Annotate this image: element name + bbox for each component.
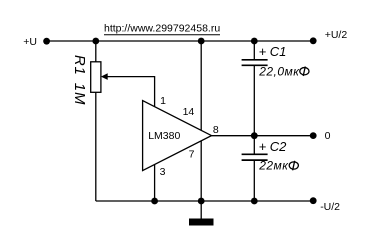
svg-text:LM380: LM380 — [148, 130, 180, 142]
value C2 Ф glyph — [289, 161, 298, 171]
svg-text:0: 0 — [325, 130, 331, 142]
capacitor C2 plates — [242, 154, 268, 160]
wire top rail — [47, 40, 314, 42]
wire C1 bottom lead — [253, 66, 255, 136]
svg-text:8: 8 — [213, 124, 219, 136]
resistor R1 body — [91, 62, 101, 93]
svg-text:14: 14 — [183, 106, 195, 118]
terminal +U/2 — [310, 37, 317, 44]
svg-text:+U: +U — [23, 36, 37, 48]
node junction top R1 — [92, 38, 99, 45]
wire C2 top lead — [253, 136, 255, 154]
label url underline — [104, 34, 220, 36]
resistor R1 wiper arrow — [101, 73, 108, 80]
wire R1 bottom lead — [95, 92, 97, 201]
wire pin 3 to bottom rail — [154, 164, 156, 201]
terminal 0 — [310, 132, 317, 139]
svg-text:+ C2: + C2 — [259, 139, 288, 154]
value C1 Ф glyph — [300, 67, 309, 77]
svg-text:1: 1 — [160, 95, 166, 107]
terminal +U — [43, 38, 50, 45]
node junction top pin14 — [198, 38, 205, 45]
wire wiper to pin 1 — [106, 77, 155, 107]
node junction bottom ground — [198, 198, 205, 205]
svg-text:+ C1: + C1 — [259, 44, 287, 59]
terminal -U/2 — [310, 197, 317, 204]
op-amp U1 LM380 triangle — [143, 101, 212, 171]
wire pin 7 to bottom rail — [200, 141, 202, 201]
wire R1 top lead — [95, 41, 97, 62]
wire ground lead — [200, 201, 202, 219]
svg-text:R1: R1 — [71, 55, 88, 76]
node junction bottom pin3 — [151, 198, 158, 205]
svg-text:+U/2: +U/2 — [325, 29, 348, 41]
wire pin 14 to top rail — [200, 41, 202, 130]
ground — [189, 219, 214, 226]
node junction bottom C2 — [251, 198, 258, 205]
svg-text:22,0мк: 22,0мк — [258, 64, 300, 78]
capacitor C1 plates — [242, 60, 268, 66]
node junction middle C1/C2 — [251, 132, 258, 139]
wire C2 bottom lead — [253, 161, 255, 201]
svg-text:7: 7 — [189, 149, 195, 161]
wire bottom rail — [96, 200, 313, 202]
svg-text:3: 3 — [160, 166, 166, 178]
wire middle output rail — [212, 135, 314, 137]
svg-text:1M: 1M — [71, 83, 88, 106]
node junction top C1 — [251, 38, 258, 45]
svg-text:22мк: 22мк — [258, 159, 289, 173]
svg-text:http://www.299792458.ru: http://www.299792458.ru — [104, 22, 220, 34]
svg-text:-U/2: -U/2 — [320, 201, 340, 213]
wire C1 top lead — [253, 41, 255, 59]
